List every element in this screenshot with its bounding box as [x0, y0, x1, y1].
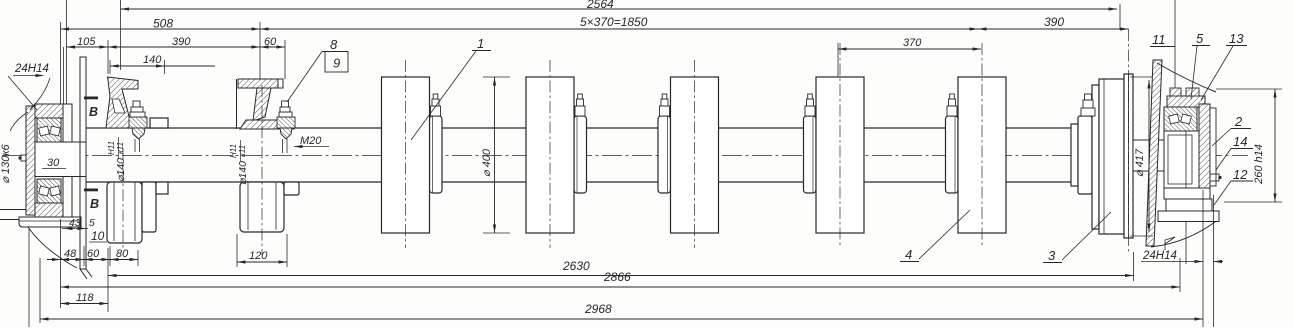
svg-text:9: 9 — [333, 56, 340, 71]
svg-text:48: 48 — [64, 248, 77, 260]
svg-text:14: 14 — [1233, 134, 1247, 149]
svg-text:80: 80 — [116, 248, 129, 260]
svg-text:5×370=1850: 5×370=1850 — [580, 15, 648, 29]
svg-text:М20: М20 — [300, 135, 322, 147]
svg-text:390: 390 — [172, 36, 191, 48]
svg-text:2564: 2564 — [586, 0, 614, 11]
svg-text:60: 60 — [264, 36, 277, 48]
svg-text:390: 390 — [1044, 15, 1064, 29]
svg-text:12: 12 — [1233, 167, 1248, 182]
svg-text:2630: 2630 — [562, 259, 590, 273]
svg-text:3: 3 — [1048, 248, 1056, 263]
svg-text:24Н14: 24Н14 — [14, 63, 49, 75]
svg-text:2866: 2866 — [603, 270, 631, 284]
svg-text:4: 4 — [905, 247, 912, 262]
svg-text:5: 5 — [1196, 31, 1204, 46]
svg-text:60: 60 — [87, 248, 100, 260]
svg-text:140: 140 — [143, 54, 162, 66]
svg-text:⌀ 400: ⌀ 400 — [481, 148, 493, 177]
svg-text:8: 8 — [330, 37, 338, 52]
svg-text:10: 10 — [91, 229, 105, 243]
svg-text:1: 1 — [477, 36, 484, 51]
svg-text:5: 5 — [89, 217, 95, 229]
svg-text:⌀140: ⌀140 — [237, 161, 249, 185]
svg-text:В: В — [90, 197, 99, 211]
svg-text:260 h14: 260 h14 — [1253, 144, 1265, 185]
svg-text:⌀140: ⌀140 — [115, 158, 127, 182]
svg-text:508: 508 — [153, 17, 173, 31]
svg-text:В: В — [89, 105, 98, 119]
svg-text:370: 370 — [903, 37, 922, 49]
svg-text:2968: 2968 — [584, 302, 612, 316]
svg-text:105: 105 — [77, 36, 96, 48]
svg-text:118: 118 — [76, 292, 94, 304]
svg-text:120: 120 — [249, 250, 268, 262]
svg-text:к11: к11 — [238, 145, 247, 157]
svg-text:11: 11 — [1152, 32, 1166, 47]
svg-text:⌀ 417: ⌀ 417 — [1134, 148, 1146, 177]
svg-text:24Н14: 24Н14 — [1142, 250, 1177, 262]
svg-text:Н11: Н11 — [107, 141, 116, 155]
svg-text:⌀ 130к6: ⌀ 130к6 — [0, 143, 12, 183]
svg-text:30: 30 — [47, 157, 60, 169]
svg-text:к11: к11 — [116, 142, 125, 154]
svg-text:13: 13 — [1229, 31, 1244, 46]
svg-text:2: 2 — [1234, 114, 1243, 129]
svg-text:Н11: Н11 — [229, 144, 238, 158]
